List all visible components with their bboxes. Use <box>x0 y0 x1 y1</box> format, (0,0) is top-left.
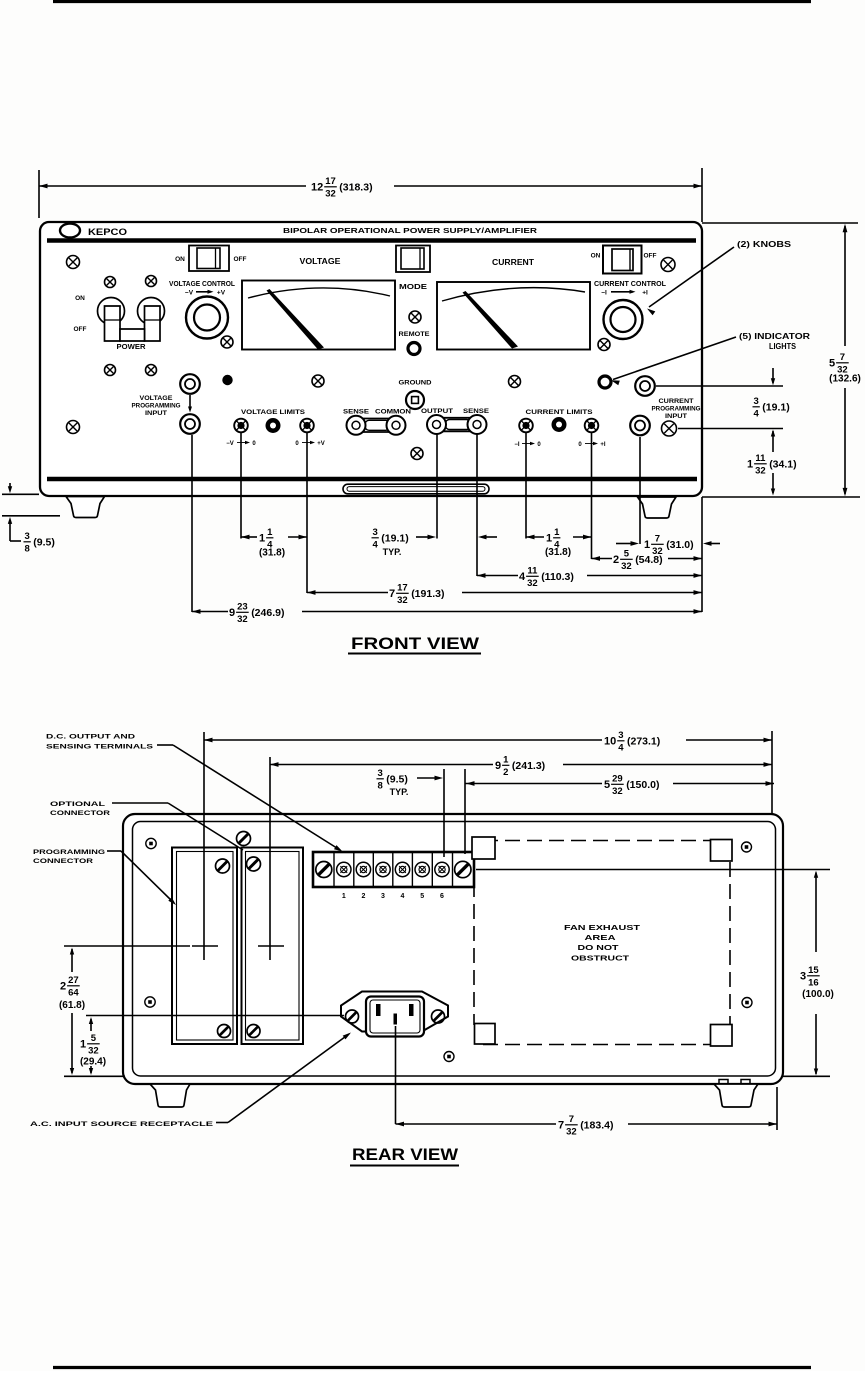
svg-text:5: 5 <box>829 358 835 370</box>
screw optional cover top <box>247 857 261 871</box>
terminal strip divider 5 <box>411 852 413 887</box>
dimension 1 1/4 (31.8) right <box>526 536 544 538</box>
header rule (thick) <box>47 238 696 243</box>
rear screw right-mid <box>742 998 752 1008</box>
dimension 7 17/32 (191.3) <box>307 592 388 594</box>
svg-text:16: 16 <box>808 978 819 989</box>
dimension 4 11/32 (110.3) <box>477 575 518 577</box>
svg-text:5: 5 <box>604 779 610 791</box>
svg-text:CURRENT LIMITS: CURRENT LIMITS <box>526 409 594 416</box>
page bottom rule <box>53 1366 811 1369</box>
svg-text:27: 27 <box>68 975 79 986</box>
ac receptacle pin N <box>409 1004 414 1016</box>
extension line from current prog input terminal <box>656 385 783 387</box>
leader to lower voltage programming terminal <box>189 395 191 410</box>
leader to optional connector <box>168 803 243 850</box>
screw top-left <box>67 256 80 269</box>
svg-text:32: 32 <box>325 189 336 200</box>
svg-text:3: 3 <box>25 531 30 542</box>
svg-text:7: 7 <box>569 1114 574 1125</box>
optional connector cover <box>242 848 304 1045</box>
front view overall-width dimension 12 17/32 (318.3) <box>38 170 40 218</box>
svg-text:32: 32 <box>612 786 623 797</box>
terminal strip divider 6 <box>431 852 433 887</box>
svg-text:+V: +V <box>217 290 226 297</box>
svg-text:D.C. OUTPUT AND: D.C. OUTPUT AND <box>46 734 135 741</box>
svg-text:32: 32 <box>566 1127 577 1138</box>
front height dimension 5 7/32 (132.6) <box>844 226 846 346</box>
screw below power right <box>146 365 157 376</box>
extension line from output post <box>436 434 438 539</box>
svg-text:4: 4 <box>401 893 405 900</box>
screw programming cover bottom <box>218 1025 231 1038</box>
svg-text:POWER: POWER <box>117 344 146 351</box>
svg-text:(273.1): (273.1) <box>627 736 660 748</box>
extension line receptacle screw level <box>86 1015 344 1017</box>
svg-text:KEPCO: KEPCO <box>88 227 127 238</box>
svg-text:GROUND: GROUND <box>399 380 432 387</box>
svg-text:+I: +I <box>642 290 648 297</box>
indicator light (callout target) <box>599 376 611 388</box>
svg-text:FAN EXHAUST: FAN EXHAUST <box>564 923 641 932</box>
svg-text:2: 2 <box>613 554 619 566</box>
extension line to terminal 7 <box>443 786 445 857</box>
fan area dashed right <box>729 862 731 1025</box>
extension line rear bottom right <box>783 1075 830 1077</box>
svg-text:SENSE: SENSE <box>343 409 370 416</box>
svg-text:(31.0): (31.0) <box>666 539 693 551</box>
svg-text:(9.5): (9.5) <box>386 774 408 786</box>
svg-text:3: 3 <box>373 527 378 538</box>
svg-text:1: 1 <box>503 754 509 765</box>
terminal strip divider 4 <box>392 852 394 887</box>
rear left foot <box>150 1084 190 1107</box>
voltage meter <box>242 281 395 350</box>
svg-text:VOLTAGE: VOLTAGE <box>140 395 173 402</box>
svg-text:29: 29 <box>612 773 623 784</box>
svg-text:REAR VIEW: REAR VIEW <box>352 1145 459 1164</box>
svg-text:A.C. INPUT SOURCE RECEPTACLE: A.C. INPUT SOURCE RECEPTACLE <box>30 1121 214 1128</box>
rear dimension 10 3/4 (273.1) <box>203 732 205 748</box>
svg-text:CURRENT: CURRENT <box>659 398 694 405</box>
black dot fastener <box>222 375 232 385</box>
svg-text:−I: −I <box>514 442 520 448</box>
svg-text:(31.8): (31.8) <box>545 547 571 558</box>
svg-text:7: 7 <box>558 1120 564 1132</box>
svg-text:5: 5 <box>420 893 424 900</box>
voltage programming input upper terminal <box>180 374 200 394</box>
svg-text:15: 15 <box>808 965 819 976</box>
terminal strip divider 7 <box>452 852 454 887</box>
ac receptacle right screw <box>432 1010 445 1023</box>
power switch (dual toggle) <box>98 298 165 342</box>
svg-text:5: 5 <box>91 1033 97 1044</box>
dimension 1 7/32 (31.0) <box>616 543 632 545</box>
rear screw top-left <box>146 838 156 848</box>
svg-text:DO NOT: DO NOT <box>578 943 620 952</box>
svg-text:OFF: OFF <box>644 253 657 260</box>
front panel outline <box>40 222 702 496</box>
screw below power left <box>105 365 116 376</box>
voltage limit pot -V <box>234 419 248 433</box>
dimension 9 23/32 (246.9) <box>192 611 228 613</box>
svg-text:CURRENT: CURRENT <box>492 258 534 267</box>
power on/off toggle switch (left) <box>189 246 229 272</box>
extension line from voltage programming input <box>191 435 193 612</box>
svg-text:6: 6 <box>440 893 444 900</box>
svg-text:1: 1 <box>747 459 753 471</box>
svg-text:1: 1 <box>80 1039 86 1051</box>
svg-text:CONNECTOR: CONNECTOR <box>33 858 93 865</box>
svg-text:−V: −V <box>185 290 194 297</box>
remote screw <box>409 311 421 323</box>
screw center-right <box>509 376 521 388</box>
rear panel outline (outer) <box>123 814 783 1084</box>
rear right foot <box>714 1084 758 1107</box>
svg-text:64: 64 <box>68 988 79 999</box>
optional connector center mark <box>258 945 284 947</box>
svg-text:7: 7 <box>389 588 395 600</box>
strip terminal 6 <box>435 862 449 876</box>
svg-text:−V: −V <box>226 441 234 447</box>
ac receptacle <box>341 992 448 1037</box>
svg-text:(34.1): (34.1) <box>769 459 796 471</box>
dimension 2 5/32 (54.8) <box>592 558 613 560</box>
svg-text:2: 2 <box>60 981 66 993</box>
extension line from current programming input <box>639 437 641 544</box>
svg-text:17: 17 <box>397 582 408 593</box>
svg-text:(5) INDICATOR: (5) INDICATOR <box>739 332 810 341</box>
svg-text:(191.3): (191.3) <box>411 588 444 600</box>
rear screw right-top <box>742 842 752 852</box>
rear screw bottom-center <box>444 1052 454 1062</box>
svg-text:(19.1): (19.1) <box>762 402 789 414</box>
svg-text:COMMON: COMMON <box>375 409 411 416</box>
dimension 1 1/4 (31.8) left <box>241 536 257 538</box>
svg-text:VOLTAGE LIMITS: VOLTAGE LIMITS <box>241 409 306 416</box>
strip terminal 1 <box>337 862 351 876</box>
mode toggle switch <box>396 246 430 273</box>
fan area dashed top <box>483 840 722 842</box>
current limit pot +I <box>585 419 599 433</box>
svg-text:4: 4 <box>519 571 526 583</box>
svg-text:1: 1 <box>546 533 552 545</box>
svg-text:CONNECTOR: CONNECTOR <box>50 810 110 817</box>
extension line from sense post <box>476 434 478 576</box>
svg-text:FRONT VIEW: FRONT VIEW <box>351 634 480 653</box>
strip terminal 2 <box>356 862 370 876</box>
extension line from -I limit pot <box>525 433 527 539</box>
svg-text:(150.0): (150.0) <box>626 779 659 791</box>
extension line connector centers <box>64 945 190 947</box>
svg-text:LIGHTS: LIGHTS <box>769 342 797 351</box>
svg-text:REMOTE: REMOTE <box>399 331 430 338</box>
svg-text:(2) KNOBS: (2) KNOBS <box>737 240 792 249</box>
svg-text:MODE: MODE <box>399 284 427 291</box>
fan area dashed bottom <box>483 1044 722 1046</box>
svg-text:OUTPUT: OUTPUT <box>421 408 453 415</box>
svg-text:32: 32 <box>621 561 632 572</box>
svg-text:9: 9 <box>495 760 501 772</box>
svg-text:8: 8 <box>25 544 30 555</box>
svg-text:ON: ON <box>75 295 85 302</box>
screw left mid <box>67 421 80 434</box>
extension line panel right edge <box>701 497 703 612</box>
extension line from +I limit pot <box>591 433 593 559</box>
svg-text:3: 3 <box>381 893 385 900</box>
extension line from -V limit pot <box>240 433 242 539</box>
svg-text:2: 2 <box>503 767 508 778</box>
screw below ground <box>411 448 423 460</box>
strip terminal 4 <box>395 862 409 876</box>
rear dimension 7 7/32 (183.4) <box>396 1123 557 1125</box>
svg-text:23: 23 <box>237 601 248 612</box>
extension line to terminal 8 <box>464 786 466 854</box>
svg-text:(100.0): (100.0) <box>802 989 834 1000</box>
KEPCO logo ellipse <box>60 224 80 238</box>
svg-text:(61.8): (61.8) <box>59 1000 85 1011</box>
voltage limit center hole <box>266 418 281 433</box>
extension line rear panel right bottom <box>776 1087 778 1130</box>
terminal strip divider 1 <box>333 852 335 887</box>
svg-text:OPTIONAL: OPTIONAL <box>50 801 105 808</box>
svg-text:OFF: OFF <box>234 256 247 263</box>
screw center-left <box>312 375 324 387</box>
svg-text:32: 32 <box>397 595 408 606</box>
fan corner square top-right <box>711 840 733 862</box>
dimension 3/4 (19.1) right side <box>772 368 774 383</box>
screw top-right <box>661 258 675 272</box>
svg-text:+V: +V <box>317 441 325 447</box>
svg-text:4: 4 <box>754 409 760 420</box>
front panel handle slot <box>343 484 489 494</box>
svg-text:−I: −I <box>601 290 607 297</box>
screw above power right <box>146 276 157 287</box>
svg-text:(29.4): (29.4) <box>80 1057 106 1068</box>
programming connector cover <box>172 848 237 1045</box>
ac receptacle pin L <box>376 1004 381 1016</box>
svg-text:(241.3): (241.3) <box>512 760 545 772</box>
screw below-left of current knob <box>598 339 610 351</box>
screw right of voltage knob <box>221 336 233 348</box>
ground terminal <box>406 391 424 409</box>
current programming input upper terminal <box>635 376 655 396</box>
extension line receptacle center <box>395 1026 397 1124</box>
current programming input lower terminal <box>630 416 650 436</box>
terminal strip divider 2 <box>353 852 355 887</box>
fan corner square bottom-left <box>475 1024 496 1045</box>
svg-text:SENSING TERMINALS: SENSING TERMINALS <box>46 744 154 751</box>
svg-text:OBSTRUCT: OBSTRUCT <box>571 954 630 963</box>
svg-text:TYP.: TYP. <box>383 547 402 557</box>
svg-text:32: 32 <box>88 1046 99 1057</box>
svg-text:11: 11 <box>527 565 538 576</box>
voltage limit pot +V <box>300 419 314 433</box>
svg-text:1: 1 <box>342 893 346 900</box>
svg-text:1: 1 <box>267 527 273 538</box>
svg-text:INPUT: INPUT <box>665 413 687 420</box>
svg-text:1: 1 <box>259 533 265 545</box>
svg-text:3: 3 <box>618 730 623 741</box>
svg-text:(110.3): (110.3) <box>541 571 574 583</box>
svg-text:2: 2 <box>361 893 365 900</box>
svg-text:CURRENT CONTROL: CURRENT CONTROL <box>594 281 667 288</box>
svg-text:3: 3 <box>378 768 383 779</box>
svg-text:11: 11 <box>755 453 766 464</box>
dc terminal strip <box>313 852 474 887</box>
svg-text:VOLTAGE CONTROL: VOLTAGE CONTROL <box>169 281 236 288</box>
extension line to optional connector center <box>269 772 271 960</box>
svg-text:ON: ON <box>175 256 185 263</box>
output-sense binding post pair <box>430 418 484 432</box>
strip screw B (slotted) <box>455 861 471 877</box>
rear dimension 3 15/16 (100.0) <box>815 873 817 953</box>
rear panel outline (inner) <box>133 822 776 1077</box>
svg-text:PROGRAMMING: PROGRAMMING <box>132 403 181 410</box>
rear dimension 9 1/2 (241.3) <box>269 757 271 772</box>
extension line from +V limit pot <box>306 433 308 593</box>
svg-text:3: 3 <box>754 396 759 407</box>
front right foot <box>638 497 677 518</box>
svg-text:OFF: OFF <box>74 326 87 333</box>
screw above covers <box>237 832 251 846</box>
svg-text:4: 4 <box>618 743 624 754</box>
svg-text:AREA: AREA <box>585 933 617 942</box>
ac receptacle pin G <box>394 1014 398 1025</box>
svg-text:8: 8 <box>378 781 383 792</box>
svg-text:(54.8): (54.8) <box>635 554 662 566</box>
extension line to programming connector center <box>203 748 205 960</box>
rear right foot tabs <box>719 1080 750 1085</box>
extension line panel top edge right <box>702 222 858 224</box>
svg-text:(9.5): (9.5) <box>33 537 55 549</box>
rear dimension 5 29/32 (150.0) <box>465 783 602 785</box>
svg-text:7: 7 <box>655 533 660 544</box>
voltage programming input lower terminal <box>180 414 200 434</box>
extension line rear panel bottom left <box>64 1075 125 1077</box>
extension line terminal row right <box>476 869 830 871</box>
fan corner square bottom-right <box>711 1025 733 1047</box>
svg-text:PROGRAMMING: PROGRAMMING <box>33 849 105 856</box>
fan area dashed left <box>473 860 475 1025</box>
svg-text:(318.3): (318.3) <box>339 182 372 194</box>
terminal strip divider 3 <box>372 852 374 887</box>
current limit center hole <box>552 417 567 432</box>
svg-text:32: 32 <box>237 614 248 625</box>
extension line from aux screw terminal <box>678 428 783 430</box>
rear dimension 1 5/32 (29.4) <box>90 1019 92 1031</box>
screw optional cover bottom <box>247 1025 260 1038</box>
leader to programming connector <box>121 851 174 903</box>
svg-text:VOLTAGE: VOLTAGE <box>300 257 342 266</box>
svg-text:ON: ON <box>591 253 601 260</box>
extension line panel bottom edge right <box>702 496 860 498</box>
svg-text:10: 10 <box>604 736 616 748</box>
svg-text:1: 1 <box>644 539 650 551</box>
strip screw A (slotted) <box>316 862 332 878</box>
leader to dc terminal strip <box>173 745 340 850</box>
current meter <box>437 282 590 350</box>
svg-text:12: 12 <box>311 182 323 194</box>
current limit pot -I <box>519 419 533 433</box>
screw above power left <box>105 277 116 288</box>
current control knob <box>604 300 643 339</box>
programming connector center mark <box>192 945 218 947</box>
dimension 1 11/32 (34.1) <box>772 431 774 452</box>
remote indicator light <box>408 343 420 355</box>
svg-text:5: 5 <box>624 548 630 559</box>
svg-text:(246.9): (246.9) <box>251 607 284 619</box>
svg-text:(31.8): (31.8) <box>259 548 285 559</box>
front panel lower thick rule <box>47 477 697 482</box>
svg-text:SENSE: SENSE <box>463 408 490 415</box>
screw programming cover top <box>216 859 230 873</box>
fan corner square top-left <box>472 837 495 859</box>
current on/off toggle switch (right) <box>603 246 642 274</box>
svg-text:1: 1 <box>554 527 560 538</box>
svg-text:(183.4): (183.4) <box>580 1120 613 1132</box>
svg-text:(19.1): (19.1) <box>381 533 408 545</box>
svg-text:32: 32 <box>755 466 766 477</box>
strip terminal 5 <box>415 862 429 876</box>
svg-text:9: 9 <box>229 607 235 619</box>
svg-text:(132.6): (132.6) <box>829 374 861 385</box>
current programming aux screw terminal <box>662 421 677 436</box>
svg-text:32: 32 <box>527 578 538 589</box>
sense-common binding post pair <box>350 419 403 433</box>
svg-text:4: 4 <box>373 540 379 551</box>
foot height dimension 3/8 (9.5) <box>2 493 39 495</box>
rear dimension 2 27/64 (61.8) <box>71 949 73 972</box>
svg-text:3: 3 <box>800 971 806 983</box>
svg-text:PROGRAMMING: PROGRAMMING <box>652 406 701 413</box>
rear screw left-mid <box>145 997 155 1007</box>
page top rule <box>53 0 811 3</box>
svg-text:17: 17 <box>325 176 336 187</box>
svg-text:+I: +I <box>600 442 606 448</box>
svg-text:BIPOLAR OPERATIONAL POWER SUPP: BIPOLAR OPERATIONAL POWER SUPPLY/AMPLIFI… <box>283 226 538 235</box>
ac receptacle left screw <box>346 1010 359 1023</box>
voltage control knob <box>186 297 228 339</box>
svg-text:INPUT: INPUT <box>145 410 167 417</box>
svg-text:7: 7 <box>840 352 845 363</box>
svg-text:TYP.: TYP. <box>390 787 409 797</box>
strip terminal 3 <box>376 862 390 876</box>
front left foot <box>66 497 105 518</box>
